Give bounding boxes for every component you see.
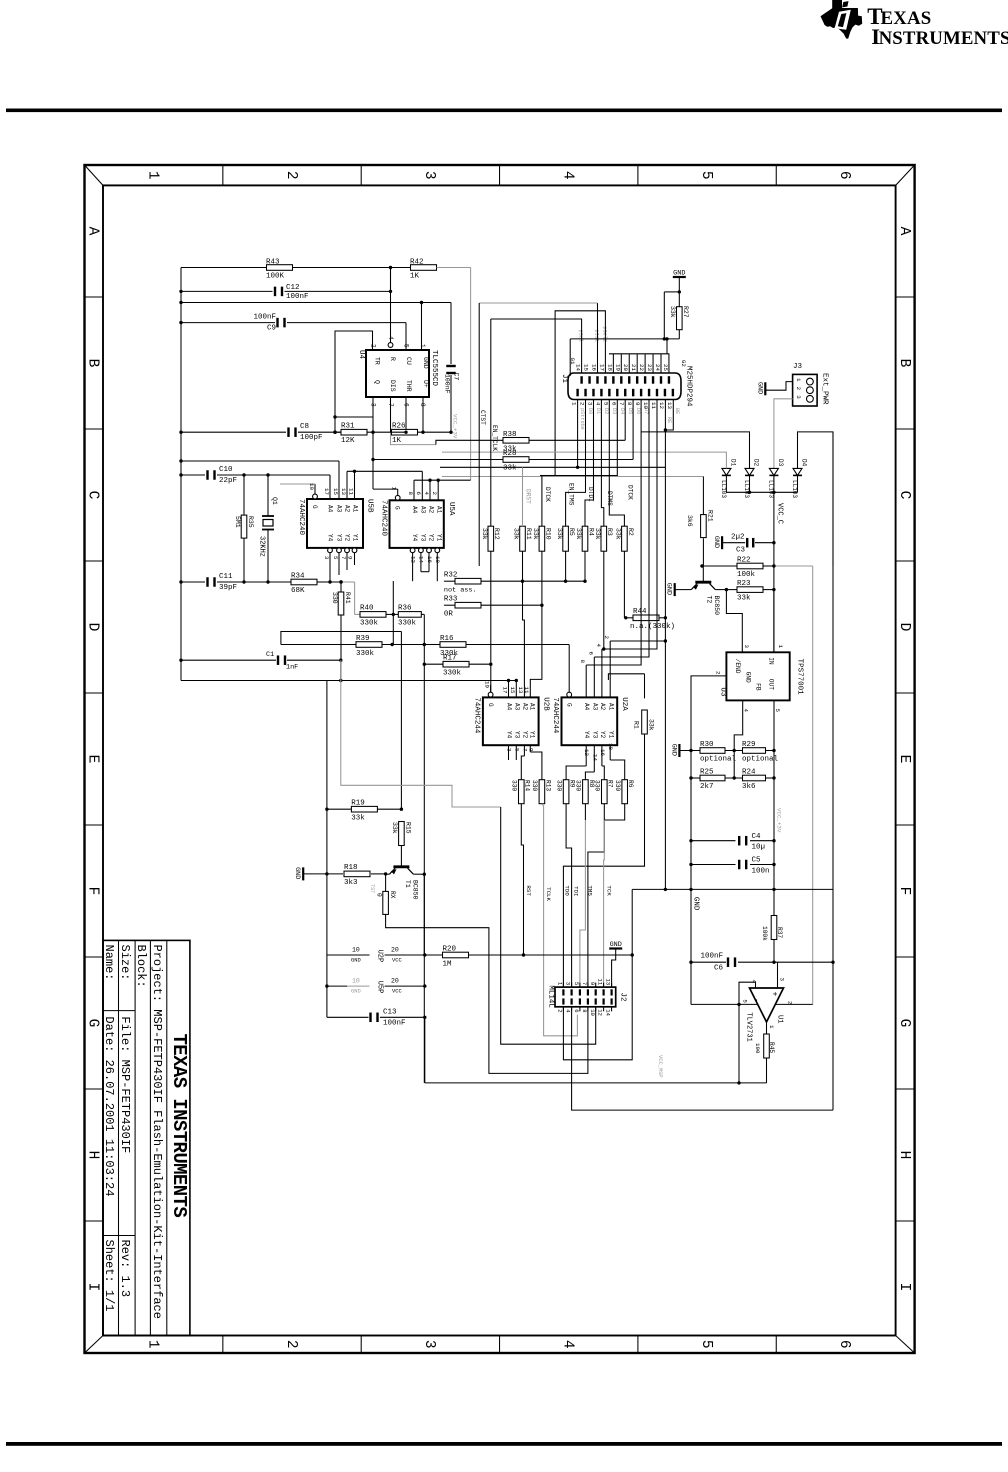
svg-text:R19: R19	[351, 800, 365, 808]
svg-text:R12: R12	[493, 528, 500, 540]
resistor R33	[444, 596, 481, 619]
capacitor C7	[444, 303, 460, 433]
svg-text:33k: 33k	[532, 528, 539, 540]
wire J1 pin12 down	[664, 400, 666, 890]
svg-text:R9: R9	[569, 780, 576, 788]
svg-text:32KHz: 32KHz	[258, 536, 266, 557]
svg-text:9: 9	[346, 556, 353, 560]
wire R26 right	[418, 431, 452, 433]
wire R30 row	[679, 750, 774, 752]
svg-text:D3: D3	[611, 408, 617, 414]
svg-text:R27: R27	[682, 306, 689, 318]
resistor R42	[410, 259, 437, 281]
svg-text:4: 4	[594, 402, 601, 406]
net label TCLK	[545, 887, 552, 901]
svg-text:1K: 1K	[410, 273, 420, 281]
title block Name	[102, 945, 116, 981]
svg-text:Y3: Y3	[591, 731, 598, 739]
svg-text:5: 5	[698, 1340, 714, 1349]
connector J2 pin numbers	[557, 978, 612, 1016]
net label EN_TMS	[568, 483, 575, 506]
title block Rev	[118, 1240, 132, 1298]
junction left bus2	[325, 808, 328, 988]
svg-text:A1: A1	[529, 703, 536, 711]
title block Size	[118, 945, 132, 981]
svg-text:3: 3	[506, 748, 513, 752]
capacitor C4	[738, 833, 765, 852]
wire VCC_C rail	[773, 492, 775, 652]
svg-text:11: 11	[523, 687, 530, 694]
svg-text:C12: C12	[286, 284, 300, 292]
svg-text:U5A: U5A	[447, 502, 455, 516]
svg-text:13: 13	[666, 402, 673, 409]
capacitor C1	[266, 651, 298, 672]
wire R28 row	[371, 458, 633, 461]
svg-text:DTCK: DTCK	[626, 485, 633, 500]
svg-text:pSel2: pSel2	[601, 326, 607, 342]
svg-text:2: 2	[715, 671, 722, 675]
svg-text:M25HDP294: M25HDP294	[685, 366, 693, 407]
svg-text:74AHC240: 74AHC240	[297, 499, 305, 536]
ic U5B box	[307, 499, 363, 548]
resistor R12 33k	[481, 526, 500, 551]
resistor R35	[234, 475, 254, 582]
logo text INSTRUMENTS	[871, 24, 1008, 49]
svg-text:pSel: pSel	[578, 330, 584, 342]
wire U4 pin6 down	[405, 397, 407, 429]
svg-text:EN_TMS: EN_TMS	[568, 483, 575, 506]
svg-text:4: 4	[595, 644, 602, 648]
svg-text:R2: R2	[627, 528, 634, 536]
svg-text:Y4: Y4	[583, 731, 590, 739]
svg-text:12: 12	[410, 556, 417, 563]
svg-text:330k: 330k	[356, 650, 375, 658]
diode D1	[720, 459, 737, 498]
resistor R39	[356, 635, 382, 658]
resistor R6 330	[614, 780, 634, 804]
svg-text:R26: R26	[392, 423, 406, 431]
svg-text:LL103: LL103	[743, 480, 750, 498]
wire U3 pin2	[691, 676, 726, 751]
svg-text:U2A: U2A	[620, 697, 628, 711]
svg-text:6: 6	[610, 402, 617, 406]
svg-text:39pF: 39pF	[219, 584, 237, 592]
svg-text:VCC: VCC	[392, 958, 402, 964]
svg-text:4: 4	[560, 171, 576, 180]
title block outline	[103, 940, 190, 1335]
svg-text:G: G	[487, 703, 494, 707]
svg-text:File: MSP-FETP430IF: File: MSP-FETP430IF	[118, 1016, 132, 1153]
resistor R22	[737, 557, 763, 580]
svg-text:330k: 330k	[398, 620, 417, 628]
svg-text:R6: R6	[627, 780, 634, 788]
svg-text:2: 2	[283, 1340, 299, 1349]
junction diode bus	[748, 491, 776, 494]
svg-text:20: 20	[391, 978, 399, 985]
svg-text:R16: R16	[440, 635, 454, 643]
svg-text:DIS: DIS	[389, 380, 396, 392]
svg-text:10: 10	[352, 978, 360, 985]
svg-text:33k: 33k	[615, 528, 622, 540]
svg-text:U4: U4	[357, 350, 365, 360]
label U5P	[376, 981, 384, 994]
svg-text:R44: R44	[633, 608, 647, 616]
ic U3 name	[795, 659, 803, 696]
svg-text:R45: R45	[768, 1042, 775, 1053]
svg-text:Rev: 1.3: Rev: 1.3	[118, 1240, 132, 1298]
svg-text:0R: 0R	[444, 611, 454, 619]
resistor R16	[440, 635, 466, 658]
svg-text:G: G	[311, 505, 318, 509]
wire R32 row	[444, 580, 585, 582]
svg-text:33k: 33k	[503, 465, 517, 473]
svg-text:3k6: 3k6	[742, 783, 756, 791]
resistor R36	[398, 605, 421, 628]
ic U2A refdes	[620, 697, 628, 711]
resistor R31	[341, 423, 367, 446]
junction C7 top	[0, 0, 1, 1]
svg-text:GND: GND	[610, 941, 622, 949]
svg-text:3: 3	[778, 978, 785, 982]
svg-text:G2: G2	[680, 360, 687, 367]
resistor R21	[686, 477, 714, 567]
svg-text:18: 18	[607, 743, 614, 750]
resistor R38	[503, 431, 529, 454]
svg-text:1: 1	[144, 1340, 160, 1349]
junction R19	[400, 808, 403, 811]
wire R39 row	[281, 644, 424, 646]
svg-text:R29: R29	[742, 741, 756, 749]
frame row letters left	[85, 227, 101, 1292]
resistor R15	[391, 822, 411, 846]
svg-text:R36: R36	[398, 605, 412, 613]
junction C4	[689, 839, 775, 842]
wire C4 row	[691, 840, 774, 842]
svg-text:I: I	[85, 1283, 101, 1292]
svg-text:16: 16	[599, 749, 606, 756]
svg-text:C11: C11	[219, 573, 233, 581]
resistor R13 330	[531, 780, 551, 804]
svg-text:8: 8	[579, 660, 586, 664]
svg-text:13: 13	[340, 488, 347, 495]
wire J3 gnd	[765, 382, 792, 391]
wire U3 pin5	[773, 700, 775, 889]
svg-text:U3: U3	[719, 687, 727, 697]
junction R26 area	[333, 431, 452, 434]
svg-text:FB: FB	[754, 683, 761, 691]
svg-text:A1: A1	[608, 703, 615, 711]
wire gray right rail	[812, 566, 814, 1004]
svg-text:11: 11	[347, 488, 354, 495]
svg-text:3k3: 3k3	[344, 879, 358, 887]
svg-text:4: 4	[565, 1009, 572, 1013]
wire left bus vertical	[180, 268, 182, 681]
svg-text:A4: A4	[583, 703, 590, 711]
svg-text:IN: IN	[768, 657, 775, 665]
connector J1 net names top	[578, 326, 608, 342]
wire T2 emitter	[676, 589, 692, 591]
svg-text:20: 20	[391, 947, 399, 954]
svg-text:100nF: 100nF	[253, 314, 276, 322]
svg-text:+: +	[770, 992, 779, 997]
svg-text:A4: A4	[411, 506, 418, 514]
connector J1 refdes	[560, 374, 568, 384]
svg-text:EN_TCLK: EN_TCLK	[491, 425, 498, 451]
svg-text:U2P: U2P	[376, 950, 384, 963]
resistor R8 330	[575, 780, 595, 804]
net label TDO	[563, 885, 570, 896]
junction gnd r27	[678, 290, 681, 293]
wire top U5 rail	[181, 460, 339, 462]
junction U4 pin2 loop	[333, 415, 336, 434]
capacitor C10	[206, 466, 237, 485]
svg-text:Y1: Y1	[529, 731, 536, 739]
connector J3 labels	[793, 363, 829, 405]
svg-text:3k6: 3k6	[686, 515, 693, 527]
resistor R4 33k	[575, 526, 594, 551]
resistor R7 330	[594, 780, 614, 804]
junction C1	[339, 659, 342, 662]
svg-text:330: 330	[531, 780, 538, 791]
svg-text:TDI: TDI	[572, 886, 579, 896]
wire TCLK net	[542, 804, 578, 1036]
svg-text:-: -	[752, 998, 761, 1003]
resistor R11 33k	[513, 526, 532, 551]
svg-text:6: 6	[415, 492, 422, 496]
connector J3 box	[793, 374, 818, 406]
svg-text:5: 5	[742, 999, 749, 1003]
svg-text:R37: R37	[776, 927, 783, 938]
svg-text:330: 330	[331, 592, 338, 604]
svg-text:A: A	[896, 227, 912, 236]
svg-text:U5B: U5B	[366, 499, 374, 513]
wire C5 row	[691, 864, 774, 866]
wire R31 row	[335, 431, 406, 433]
svg-text:Q: Q	[374, 380, 381, 384]
junction RST R20	[522, 953, 525, 956]
opamp U1 TLV2731	[742, 978, 794, 1042]
svg-text:Y3: Y3	[420, 534, 427, 542]
ic U5A refdes	[447, 502, 455, 516]
svg-text:10: 10	[352, 947, 360, 954]
svg-text:R10: R10	[544, 528, 551, 540]
junction R39	[391, 643, 426, 646]
svg-text:Sheet: 1/1: Sheet: 1/1	[102, 1240, 116, 1312]
connector J3 circles	[795, 378, 813, 402]
ic U4 labels	[357, 336, 438, 407]
wire CTST vert	[478, 303, 480, 566]
ground R18	[293, 867, 343, 880]
svg-text:R25: R25	[700, 769, 714, 777]
svg-text:D1: D1	[730, 459, 737, 467]
connector J1 pin pads	[576, 376, 674, 396]
svg-text:TLC555CD: TLC555CD	[430, 350, 438, 387]
wire C12 row	[181, 268, 391, 292]
resistor R34	[291, 573, 317, 596]
wire R34 right	[317, 580, 355, 583]
svg-text:2µ2: 2µ2	[731, 534, 745, 542]
ic U3 pin labels	[715, 645, 784, 713]
wire R17 row	[424, 663, 491, 665]
svg-text:C13: C13	[383, 1009, 397, 1017]
svg-text:33k: 33k	[513, 528, 520, 540]
svg-text:3: 3	[323, 556, 330, 560]
net label DRST	[525, 489, 532, 504]
diode D3	[768, 459, 785, 498]
wire EN rail down	[690, 751, 692, 1005]
svg-text:5: 5	[332, 556, 339, 560]
svg-text:A2: A2	[599, 703, 606, 711]
svg-text:17: 17	[323, 488, 330, 495]
capacitor C13	[369, 1009, 405, 1028]
junction R41	[339, 580, 342, 583]
wire D1 anode	[442, 452, 726, 476]
svg-text:5M1: 5M1	[234, 516, 241, 528]
wire TMS net	[588, 804, 604, 987]
junction C11 row	[242, 580, 269, 583]
svg-text:100nF: 100nF	[383, 1020, 406, 1028]
svg-text:C1: C1	[266, 651, 274, 659]
wire U5P stub right	[385, 978, 425, 995]
net label TMS	[587, 885, 594, 896]
svg-text:E: E	[896, 755, 912, 764]
net label DTMS	[606, 491, 613, 506]
svg-text:R18: R18	[344, 864, 358, 872]
svg-text:A: A	[85, 227, 101, 236]
svg-text:1: 1	[557, 982, 564, 986]
junction R22	[700, 564, 775, 567]
svg-text:9: 9	[589, 982, 596, 985]
svg-text:12: 12	[658, 402, 665, 409]
wire J1 pin13 down	[664, 400, 674, 432]
svg-text:3: 3	[565, 982, 572, 985]
wire T1 collector	[413, 873, 426, 876]
svg-text:D2: D2	[753, 459, 760, 467]
wire J1 pin6 down	[542, 400, 617, 527]
svg-text:BE: BE	[674, 408, 680, 414]
wire R20 row	[425, 953, 634, 956]
connector J2 box	[555, 987, 616, 1007]
wire D2 anode	[641, 432, 749, 469]
svg-text:B: B	[85, 359, 101, 368]
wire resistor column bottoms	[489, 551, 624, 697]
svg-text:F: F	[896, 887, 912, 896]
junction U5P right	[423, 984, 426, 987]
svg-text:3: 3	[795, 395, 802, 399]
svg-text:R: R	[389, 357, 396, 361]
svg-text:1: 1	[795, 378, 802, 382]
svg-text:100nF: 100nF	[444, 374, 451, 394]
resistor R26	[392, 423, 418, 446]
svg-text:D3: D3	[777, 459, 784, 467]
svg-text:A2: A2	[522, 703, 529, 711]
resistor R14 330	[511, 780, 531, 804]
wire D4 anode	[798, 432, 834, 566]
svg-text:6: 6	[836, 171, 852, 180]
junction U2P right	[423, 953, 426, 956]
svg-text:A2: A2	[344, 505, 351, 513]
ground R30	[669, 744, 679, 757]
junction R44	[624, 616, 627, 619]
ic U5B pins	[280, 461, 359, 582]
svg-text:U2B: U2B	[542, 697, 550, 711]
svg-text:Block:: Block:	[134, 945, 148, 988]
svg-text:5: 5	[573, 982, 580, 985]
svg-text:14: 14	[605, 1009, 612, 1016]
svg-text:DTCK: DTCK	[544, 487, 551, 502]
svg-text:17: 17	[501, 687, 508, 694]
svg-text:GND: GND	[673, 270, 685, 278]
svg-text:Y2: Y2	[522, 731, 529, 739]
ic U5A pins	[391, 471, 443, 581]
svg-text:330: 330	[511, 780, 518, 791]
svg-text:R28: R28	[503, 450, 517, 458]
svg-text:A3: A3	[420, 506, 427, 514]
svg-text:Y2: Y2	[599, 731, 606, 739]
junction R30 row	[689, 749, 775, 752]
wire R38 row	[436, 440, 625, 444]
svg-text:VCC_MSP: VCC_MSP	[657, 1055, 663, 1078]
svg-text:R15: R15	[405, 822, 412, 834]
svg-text:EXAS: EXAS	[881, 8, 932, 29]
svg-text:11: 11	[597, 978, 604, 985]
svg-text:A3: A3	[514, 703, 521, 711]
transistor T2 BC850	[691, 582, 720, 615]
wire diode cathode bus	[726, 475, 797, 492]
svg-text:7: 7	[581, 982, 588, 985]
svg-text:18: 18	[606, 364, 613, 371]
junction R43-R42	[389, 266, 392, 269]
svg-text:OUT: OUT	[768, 679, 775, 690]
svg-text:19: 19	[483, 681, 490, 688]
svg-text:1: 1	[419, 344, 426, 348]
svg-text:Y3: Y3	[336, 534, 343, 542]
ic U5B name	[297, 499, 305, 536]
svg-text:GND: GND	[293, 867, 301, 879]
svg-text:5: 5	[403, 344, 410, 348]
svg-text:CU: CU	[405, 357, 412, 365]
svg-text:22pF: 22pF	[219, 477, 237, 485]
svg-text:14: 14	[418, 556, 425, 563]
svg-text:5: 5	[774, 709, 781, 713]
wire J1 pin5 down	[609, 400, 624, 527]
ic U2A box	[562, 697, 618, 745]
svg-text:VCC_+3V: VCC_+3V	[776, 808, 783, 833]
svg-text:Y4: Y4	[506, 731, 513, 739]
junction C3	[772, 541, 775, 544]
svg-text:2: 2	[557, 1009, 564, 1012]
svg-text:74AHC244: 74AHC244	[551, 697, 559, 734]
net label DTCK	[544, 487, 551, 502]
svg-text:100nF: 100nF	[286, 293, 309, 301]
wire J1 pin2 down	[566, 400, 586, 527]
wire U4 pin3 down	[335, 397, 398, 489]
svg-text:Project: MSP-FETP430IF Flash-: Project: MSP-FETP430IF Flash-Emulation-K…	[150, 945, 164, 1319]
svg-text:GND: GND	[744, 672, 751, 683]
svg-text:Y4: Y4	[411, 534, 418, 542]
wire rail424 bottom	[425, 1017, 767, 1084]
svg-text:R22: R22	[737, 557, 751, 565]
top horizontal rule	[6, 109, 1002, 113]
svg-text:R5: R5	[568, 528, 575, 536]
net label DTDI	[587, 487, 594, 502]
wire C10 row	[181, 475, 330, 487]
wire U4 pin2 loop	[335, 331, 373, 432]
wire left bus2 vert	[326, 681, 328, 1018]
wire U3 pin1	[773, 590, 775, 653]
svg-text:23: 23	[646, 364, 653, 371]
capacitor C6	[700, 953, 736, 973]
